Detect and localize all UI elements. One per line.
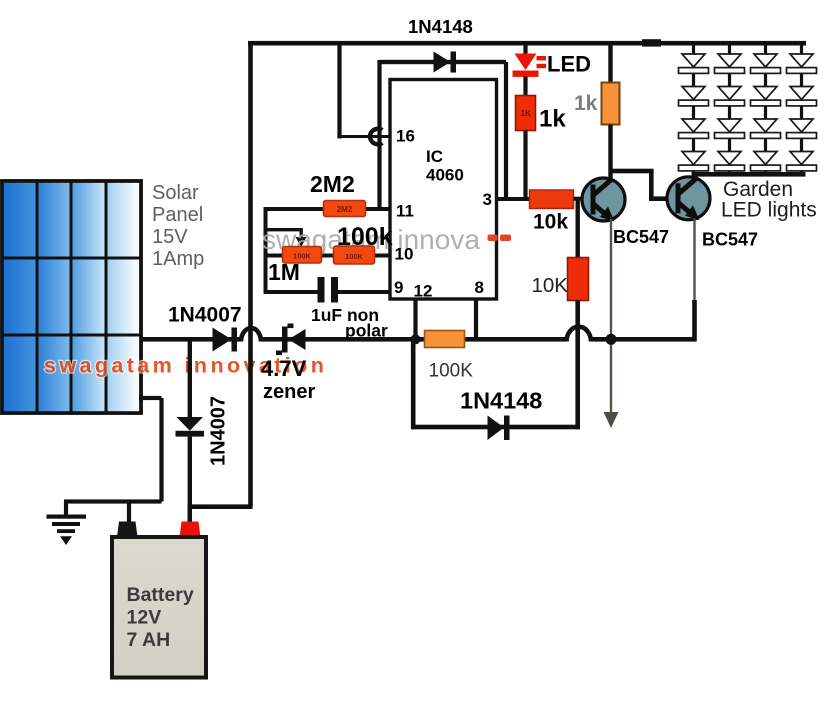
- wire base node down to 10K: [576, 197, 580, 259]
- tap bracket with arrow onto 1M: [266, 228, 300, 231]
- wire mid rail from hop to Q2 emitter corner: [591, 337, 697, 342]
- wire LED string column 2: [728, 45, 731, 174]
- svg-text:4.7V: 4.7V: [261, 356, 307, 381]
- led string D34: [751, 152, 781, 171]
- wire pin10 net: [266, 254, 391, 258]
- wire D3 branch from rail: [188, 339, 192, 417]
- resistor 1K red: [516, 96, 536, 131]
- diode D1 1N4148 top: [434, 52, 457, 73]
- junction blob on top rail: [642, 39, 661, 46]
- wire mid rail from solar panel to hop: [141, 337, 241, 342]
- wire pin16 horizontal: [338, 135, 391, 138]
- svg-text:7 AH: 7 AH: [127, 629, 171, 651]
- svg-text:10K: 10K: [532, 274, 569, 297]
- svg-text:Panel: Panel: [152, 204, 203, 226]
- wire negative link: [64, 499, 162, 503]
- svg-text:100K: 100K: [429, 361, 474, 382]
- svg-text:polar: polar: [345, 321, 388, 341]
- wire battery plus link: [188, 504, 253, 509]
- wire ground drop: [64, 502, 68, 516]
- wire Q2 emitter thick: [692, 300, 697, 342]
- wire 10K leg through rail hop to loop: [575, 300, 580, 429]
- svg-text:LED: LED: [547, 52, 591, 77]
- svg-text:1M: 1M: [268, 259, 300, 285]
- wire Q2 base drop: [649, 169, 654, 201]
- svg-text:BC547: BC547: [613, 227, 669, 247]
- resistor 10k: [530, 190, 574, 209]
- svg-text:Solar: Solar: [152, 182, 199, 204]
- svg-text:1N4148: 1N4148: [408, 16, 473, 37]
- transistor Q1 BC547: [582, 178, 625, 222]
- led string D43: [787, 119, 817, 138]
- rail hop over 10K leg: [567, 327, 592, 342]
- wire LED string column 3: [764, 45, 767, 174]
- resistor 1k orange: [602, 83, 620, 125]
- resistor 10K: [568, 258, 589, 301]
- wire panel minus drop: [159, 398, 163, 502]
- diode D2 1N4007 series: [213, 328, 238, 352]
- svg-text:2M2: 2M2: [337, 205, 353, 214]
- led string D33: [751, 119, 781, 138]
- wire cap right plate to pin9: [338, 290, 391, 294]
- svg-text:1N4007: 1N4007: [208, 396, 230, 466]
- led string D24: [715, 152, 745, 171]
- svg-text:BC547: BC547: [702, 230, 758, 250]
- diode D5 1N4148 bottom: [488, 416, 510, 441]
- wire loop left leg: [411, 339, 416, 429]
- svg-text:100k: 100k: [337, 223, 393, 251]
- ground arrow gray: [604, 412, 619, 428]
- wire pin3 out: [497, 197, 532, 201]
- svg-text:1N4007: 1N4007: [168, 304, 242, 327]
- diode D3 1N4007 vertical: [176, 417, 205, 437]
- solar panel PV1: [2, 181, 141, 413]
- wire LED string column 4: [800, 45, 803, 174]
- wire oscillator left rail: [264, 207, 268, 294]
- led string D14: [679, 152, 709, 171]
- svg-text:10: 10: [395, 245, 414, 264]
- svg-text:16: 16: [396, 127, 415, 146]
- wire battery minus drop: [127, 502, 131, 522]
- svg-text:15V: 15V: [152, 226, 188, 248]
- wire Q1 emitter thin: [610, 219, 612, 412]
- svg-text:2M2: 2M2: [310, 171, 355, 197]
- LED string bottom rail: [692, 172, 806, 177]
- svg-text:100K: 100K: [345, 252, 364, 261]
- led string D32: [751, 87, 781, 106]
- led string D41: [787, 54, 817, 73]
- wire panel minus stub: [139, 396, 162, 400]
- resistor 1M: [283, 247, 322, 264]
- led string D12: [679, 87, 709, 106]
- wire 1N4148 anode drop to pin11 net: [377, 60, 381, 211]
- wire Q2 collector stub: [693, 172, 697, 178]
- svg-text:1K: 1K: [521, 109, 531, 118]
- wire Q1 collector to 1k: [608, 45, 612, 83]
- svg-text:10k: 10k: [533, 211, 568, 234]
- resistor 100k: [334, 246, 375, 264]
- wire battery plus drop: [188, 507, 192, 522]
- wire 1N4148 top branch: [380, 60, 507, 64]
- svg-text:12V: 12V: [127, 607, 162, 629]
- wire pin12 drop: [413, 299, 417, 339]
- led string D44: [787, 152, 817, 171]
- svg-text:4060: 4060: [426, 166, 464, 185]
- pin16 C-loop around diode leg: [370, 129, 382, 145]
- led string D21: [715, 54, 745, 73]
- svg-text:9: 9: [394, 278, 403, 297]
- led string D13: [679, 119, 709, 138]
- wire into Q2 base: [649, 196, 668, 201]
- svg-text:1N4148: 1N4148: [460, 388, 542, 414]
- wire 1k to Q1 collector: [608, 125, 612, 181]
- capacitor C1 1uF plates: [318, 277, 325, 303]
- wire left vertical from top rail down to battery plus: [248, 41, 253, 507]
- svg-text:Battery: Battery: [127, 584, 194, 606]
- IC U1 4060 box: [390, 80, 497, 300]
- svg-text:1Amp: 1Amp: [152, 248, 204, 270]
- svg-text:1k: 1k: [574, 92, 598, 115]
- wire loop bottom: [411, 425, 580, 430]
- wire IC pin16 supply drop: [337, 41, 341, 139]
- watermark red dash: [488, 235, 498, 242]
- wire Q2 emitter thin: [693, 219, 695, 302]
- svg-text:IC: IC: [426, 147, 443, 166]
- wire LED string column 1: [692, 45, 695, 174]
- wire top positive rail: [248, 41, 806, 46]
- led string D42: [787, 87, 817, 106]
- wire 10k to Q1 base: [574, 197, 584, 201]
- wire LED cathode to 1K: [523, 77, 527, 97]
- wire 1K to pin3 net: [523, 131, 527, 202]
- led string D31: [751, 54, 781, 73]
- zener diode 4.7V: [276, 324, 306, 356]
- led string D11: [679, 54, 709, 73]
- rail hop over battery wire: [241, 328, 261, 342]
- svg-text:3: 3: [483, 190, 492, 209]
- LED indicator: [513, 54, 547, 77]
- resistor 2M2: [324, 201, 366, 217]
- led string D23: [715, 119, 745, 138]
- wire mid rail from hop to pin8 node: [261, 337, 566, 342]
- junction emitter rail: [606, 334, 617, 345]
- wire 1N4148 cathode drop to pin3 net: [504, 62, 508, 201]
- wire Q1 collector to Q2 base link: [609, 169, 654, 174]
- svg-text:11: 11: [396, 202, 414, 221]
- svg-text:8: 8: [475, 278, 484, 297]
- svg-text:1k: 1k: [539, 106, 566, 133]
- led string D22: [715, 87, 745, 106]
- battery terminal positive: [180, 522, 201, 538]
- wire pin11 net: [266, 207, 391, 211]
- battery terminal negative: [117, 522, 138, 538]
- wire LED anode from rail: [523, 45, 527, 54]
- wire pin8 drop: [474, 299, 478, 339]
- battery B1: [112, 537, 206, 678]
- wire pin9 to cap left plate: [264, 290, 319, 294]
- svg-text:zener: zener: [263, 381, 315, 403]
- resistor 100K: [425, 331, 465, 348]
- svg-text:12: 12: [414, 282, 433, 301]
- transistor Q2 BC547: [667, 177, 710, 221]
- svg-text:LED lights: LED lights: [721, 199, 817, 222]
- ground earth symbol: [47, 515, 87, 546]
- junction pin12 rail: [411, 334, 421, 344]
- wire D3 to battery plus: [188, 437, 192, 522]
